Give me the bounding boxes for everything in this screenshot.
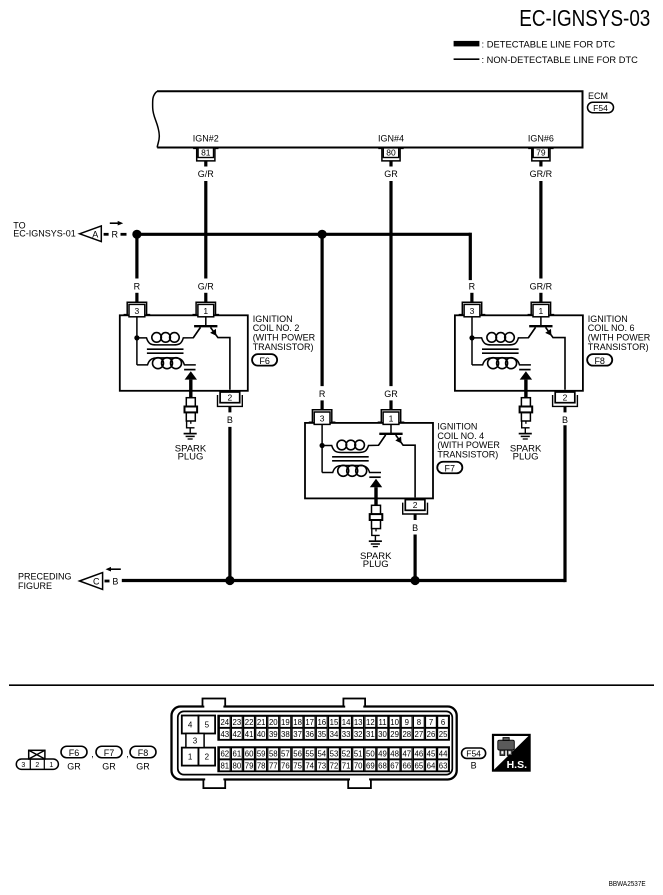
svg-text:69: 69	[366, 762, 375, 771]
svg-text:46: 46	[415, 750, 424, 759]
transformer core (coil F7)	[332, 457, 369, 461]
svg-text:B: B	[562, 415, 568, 425]
svg-text:15: 15	[330, 718, 339, 727]
wire to secondary (coil F7)	[321, 446, 323, 473]
connector F6 oval (bottom)	[61, 746, 94, 759]
svg-text:EC-IGNSYS-01: EC-IGNSYS-01	[13, 229, 76, 239]
ECM connector terminal numbers	[220, 718, 448, 771]
svg-text:PLUG: PLUG	[513, 452, 539, 463]
wire R drop to coil no.4 pin 3	[319, 234, 326, 409]
ground (spark plug 6)	[519, 434, 532, 439]
svg-text:F6: F6	[69, 748, 80, 758]
svg-text:B: B	[112, 577, 118, 587]
wire B dash and label at node C	[105, 577, 119, 587]
coil F6 pin 2	[218, 392, 243, 406]
coil F7 pin 3	[309, 410, 336, 425]
svg-text:21: 21	[257, 718, 266, 727]
svg-text:18: 18	[293, 718, 302, 727]
wire B from coil no.2 pin 2	[227, 406, 233, 580]
svg-text:1: 1	[389, 414, 394, 424]
svg-text:68: 68	[378, 762, 387, 771]
svg-text:PLUG: PLUG	[363, 559, 389, 570]
wire B from coil no.4 pin 2	[412, 514, 418, 581]
svg-text:33: 33	[342, 730, 351, 739]
svg-text:9: 9	[405, 718, 409, 727]
connector housing tabs	[203, 699, 371, 789]
svg-text:B: B	[227, 415, 233, 425]
title EC-IGNSYS-03	[519, 5, 650, 31]
svg-text:A: A	[92, 229, 98, 239]
junction node R / coil2	[132, 230, 141, 239]
wire pin3 to primary (coil F6)	[136, 317, 138, 338]
svg-text:49: 49	[378, 750, 387, 759]
svg-text:53: 53	[330, 750, 339, 759]
svg-text:FIGURE: FIGURE	[18, 581, 52, 591]
small arrow marker (direction)	[110, 221, 123, 226]
spark plug label 2	[175, 443, 207, 462]
svg-text:H.S.: H.S.	[507, 759, 528, 771]
svg-text:GR: GR	[102, 762, 116, 772]
svg-text:55: 55	[305, 750, 314, 759]
svg-text:10: 10	[390, 718, 399, 727]
transformer secondary winding (coil F7)	[322, 465, 381, 476]
ECM pin 79 (IGN#6)	[528, 134, 554, 161]
svg-text:81: 81	[220, 762, 229, 771]
svg-text:42: 42	[233, 730, 242, 739]
coil F6 pin 3	[124, 302, 151, 317]
svg-text:G/R: G/R	[198, 169, 215, 179]
wire R horizontal bus	[137, 234, 470, 278]
svg-text:2: 2	[205, 753, 210, 762]
power transistor (coil F8)	[528, 317, 565, 390]
svg-text:5: 5	[205, 721, 210, 730]
transformer primary winding (coil F7)	[322, 435, 386, 453]
svg-text:14: 14	[342, 718, 351, 727]
svg-text:76: 76	[281, 762, 290, 771]
svg-text:1: 1	[188, 753, 193, 762]
svg-text:61: 61	[233, 750, 242, 759]
transformer primary winding (coil F8)	[472, 327, 536, 345]
legend non-detectable line sample	[454, 55, 639, 65]
svg-text:GR: GR	[384, 389, 398, 399]
svg-text:65: 65	[415, 762, 424, 771]
svg-text:R: R	[319, 389, 326, 399]
svg-text:B: B	[471, 760, 477, 770]
ignition coil no. 4 box (F7)	[305, 423, 433, 499]
connector F54 label	[588, 102, 614, 113]
junction node primary/secondary (coil F7)	[320, 443, 325, 448]
svg-text:36: 36	[305, 730, 314, 739]
wire R drop to coil no.2 pin 3	[134, 234, 141, 302]
connector F8 label oval	[587, 354, 612, 366]
svg-text:TRANSISTOR): TRANSISTOR)	[588, 342, 649, 352]
svg-text:: NON-DETECTABLE LINE FOR DTC: : NON-DETECTABLE LINE FOR DTC	[482, 55, 639, 65]
svg-text:R: R	[134, 281, 141, 291]
svg-text:35: 35	[317, 730, 326, 739]
svg-text:29: 29	[390, 730, 399, 739]
svg-text:79: 79	[245, 762, 254, 771]
ECM box	[153, 91, 608, 147]
svg-text:71: 71	[342, 762, 351, 771]
svg-text:GR/R: GR/R	[530, 281, 553, 291]
coil F8 pin 2	[553, 392, 578, 406]
figure code BBWA2537E	[609, 879, 646, 888]
svg-text:34: 34	[330, 730, 339, 739]
svg-text:63: 63	[439, 762, 448, 771]
wire color GR labels	[67, 762, 150, 772]
svg-text:74: 74	[305, 762, 314, 771]
coil F6 pin 1	[193, 302, 220, 317]
svg-text:58: 58	[269, 750, 278, 759]
ignition coil no.6 text label	[588, 314, 651, 352]
spark plug SP2	[185, 398, 198, 434]
ignition coil no.4 text label	[437, 421, 500, 459]
svg-text:3: 3	[135, 306, 140, 316]
wire R dash segments and label at node A	[104, 229, 127, 239]
svg-text:72: 72	[330, 762, 339, 771]
ground (spark plug 4)	[369, 541, 382, 546]
svg-text:27: 27	[415, 730, 424, 739]
ECM connector terminal grid	[218, 716, 449, 772]
junction node R / coil4	[318, 230, 327, 239]
svg-text:F7: F7	[104, 748, 115, 758]
svg-text:1: 1	[539, 306, 544, 316]
separator rule	[9, 684, 654, 686]
ignition coil no.2 text label	[253, 314, 316, 352]
junction node primary/secondary (coil F8)	[469, 335, 474, 340]
ECM connector pins 1-5 block	[182, 716, 215, 766]
ECM pin 81 (IGN#2)	[193, 134, 219, 161]
junction node B / coil2	[225, 576, 234, 585]
svg-text:45: 45	[427, 750, 436, 759]
svg-text:26: 26	[427, 730, 436, 739]
svg-text:EC-IGNSYS-03: EC-IGNSYS-03	[519, 5, 650, 31]
svg-text:39: 39	[269, 730, 278, 739]
small arrow marker (direction, left)	[106, 567, 121, 572]
spark gap electrode plates (coil F6)	[184, 369, 195, 371]
svg-text:BBWA2537E: BBWA2537E	[609, 879, 646, 888]
wire to secondary (coil F6)	[136, 338, 138, 365]
spark plug label 6	[510, 443, 542, 462]
svg-text:2: 2	[413, 500, 418, 510]
svg-text:43: 43	[220, 730, 229, 739]
svg-text:3: 3	[21, 762, 25, 769]
svg-text:20: 20	[269, 718, 278, 727]
svg-text:4: 4	[188, 721, 193, 730]
svg-text:59: 59	[257, 750, 266, 759]
coil harness connector view (pins 3 2 1)	[16, 750, 58, 769]
svg-text:ECM: ECM	[588, 91, 608, 101]
H.S. view marker	[493, 735, 530, 771]
svg-text:IGN#4: IGN#4	[378, 134, 404, 144]
svg-text:11: 11	[378, 718, 386, 727]
svg-text:GR/R: GR/R	[530, 169, 553, 179]
svg-text:F7: F7	[445, 463, 456, 473]
transformer secondary winding (coil F8)	[472, 358, 531, 369]
svg-text:41: 41	[245, 730, 254, 739]
svg-text:GR: GR	[136, 762, 150, 772]
coil F7 pin 2	[403, 500, 428, 514]
svg-text:54: 54	[317, 750, 326, 759]
spark gap electrode plates (coil F7)	[369, 476, 380, 478]
ECM connector F54 housing	[172, 707, 457, 780]
svg-text:50: 50	[366, 750, 375, 759]
svg-text:22: 22	[245, 718, 254, 727]
svg-text:75: 75	[293, 762, 302, 771]
svg-text:,: ,	[91, 749, 94, 759]
svg-text:48: 48	[390, 750, 399, 759]
spark plug label 4	[360, 551, 392, 570]
svg-text:C: C	[93, 577, 100, 587]
svg-text:30: 30	[378, 730, 387, 739]
spark plug SP6	[520, 398, 533, 434]
svg-text:60: 60	[245, 750, 254, 759]
svg-text:2: 2	[228, 393, 233, 403]
svg-text:28: 28	[402, 730, 411, 739]
svg-text:F8: F8	[594, 356, 605, 366]
svg-text:2: 2	[563, 393, 568, 403]
connector F7 oval (bottom)	[96, 746, 129, 759]
svg-text:73: 73	[317, 762, 326, 771]
svg-text:23: 23	[233, 718, 242, 727]
svg-text:G/R: G/R	[198, 281, 215, 291]
svg-text:3: 3	[320, 414, 325, 424]
wire B horizontal bus	[122, 579, 565, 582]
svg-text:F8: F8	[138, 748, 149, 758]
svg-text:GR: GR	[384, 169, 398, 179]
svg-text:1: 1	[203, 306, 208, 316]
svg-text:32: 32	[354, 730, 363, 739]
ECM pin 80 (IGN#4)	[378, 134, 404, 161]
coil F8 pin 3	[459, 302, 486, 317]
svg-text:67: 67	[390, 762, 399, 771]
svg-text:13: 13	[354, 718, 363, 727]
junction node primary/secondary (coil F6)	[134, 335, 139, 340]
svg-text:,: ,	[126, 749, 129, 759]
svg-text:78: 78	[257, 762, 266, 771]
connector F8 oval (bottom)	[130, 746, 156, 758]
spark gap electrode plates (coil F8)	[519, 369, 530, 371]
svg-text:1: 1	[49, 762, 53, 769]
svg-text:80: 80	[386, 148, 396, 158]
svg-text:81: 81	[201, 148, 211, 158]
svg-text:3: 3	[193, 737, 198, 746]
svg-text:47: 47	[402, 750, 411, 759]
spark gap arrow (coil F8)	[520, 371, 532, 398]
svg-text:7: 7	[429, 718, 433, 727]
svg-text:56: 56	[293, 750, 302, 759]
svg-text:66: 66	[402, 762, 411, 771]
transformer primary winding (coil F6)	[137, 327, 201, 345]
svg-text:52: 52	[342, 750, 351, 759]
transformer core (coil F6)	[147, 349, 184, 353]
ignition coil no. 6 box (F8)	[455, 315, 583, 391]
power transistor (coil F7)	[379, 424, 416, 497]
svg-text:TRANSISTOR): TRANSISTOR)	[437, 450, 498, 460]
svg-text:51: 51	[354, 750, 363, 759]
svg-text:F54: F54	[466, 749, 481, 759]
svg-text:PLUG: PLUG	[178, 452, 204, 463]
svg-text:37: 37	[293, 730, 302, 739]
svg-text:16: 16	[317, 718, 326, 727]
connector F6 label oval	[252, 354, 277, 366]
svg-text:3: 3	[470, 306, 475, 316]
svg-text:PRECEDING: PRECEDING	[18, 571, 72, 581]
svg-text:64: 64	[427, 762, 436, 771]
power transistor (coil F6)	[193, 317, 230, 390]
wire B from coil no.6 pin 2	[562, 406, 568, 580]
svg-text:17: 17	[305, 718, 314, 727]
junction node B / coil4	[411, 576, 420, 585]
svg-text:25: 25	[439, 730, 448, 739]
off-page connector A (TO EC-IGNSYS-01)	[13, 220, 101, 241]
connector F7 label oval	[437, 462, 462, 474]
svg-text:TRANSISTOR): TRANSISTOR)	[253, 342, 314, 352]
svg-text:79: 79	[536, 148, 546, 158]
svg-text:44: 44	[439, 750, 448, 759]
spark gap arrow (coil F7)	[370, 479, 382, 506]
svg-text:R: R	[111, 229, 118, 239]
svg-text:B: B	[412, 523, 418, 533]
svg-text:2: 2	[35, 762, 39, 769]
svg-text:62: 62	[220, 750, 229, 759]
wire GR from ECM pin 80 to ignition coil no.4 pin 1	[384, 161, 398, 410]
svg-text:80: 80	[233, 762, 242, 771]
svg-text:24: 24	[220, 718, 229, 727]
wire GR/R from ECM pin 79 to ignition coil no.6 pin 1	[530, 161, 553, 302]
svg-text:8: 8	[417, 718, 421, 727]
svg-text:57: 57	[281, 750, 290, 759]
svg-text:F6: F6	[259, 356, 270, 366]
wire pin3 to primary (coil F7)	[321, 424, 323, 445]
coil F7 pin 1	[378, 410, 405, 425]
wire G/R from ECM pin 81 to ignition coil no.2 pin 1	[198, 161, 215, 302]
ground (spark plug 2)	[184, 434, 197, 439]
spark gap arrow (coil F6)	[185, 371, 197, 398]
svg-text:6: 6	[441, 718, 445, 727]
svg-text:F54: F54	[593, 103, 608, 113]
svg-text:70: 70	[354, 762, 363, 771]
svg-text:31: 31	[366, 730, 375, 739]
svg-text:77: 77	[269, 762, 278, 771]
legend detectable line sample	[454, 38, 616, 49]
svg-text:: DETECTABLE LINE FOR DTC: : DETECTABLE LINE FOR DTC	[482, 38, 616, 49]
svg-text:IGN#2: IGN#2	[193, 134, 219, 144]
svg-text:GR: GR	[67, 762, 81, 772]
spark plug SP4	[370, 505, 383, 541]
svg-text:12: 12	[366, 718, 375, 727]
ignition coil no. 2 box (F6)	[120, 315, 248, 391]
transformer core (coil F8)	[482, 349, 519, 353]
wire pin3 to primary (coil F8)	[471, 317, 473, 338]
svg-text:IGN#6: IGN#6	[528, 134, 554, 144]
svg-text:38: 38	[281, 730, 290, 739]
coil F8 pin 1	[528, 302, 555, 317]
svg-text:19: 19	[281, 718, 290, 727]
wire R drop to coil no.6 pin 3	[469, 281, 476, 302]
svg-text:R: R	[469, 281, 476, 291]
connector F54 oval (bottom)	[462, 748, 486, 770]
svg-text:40: 40	[257, 730, 266, 739]
wire to secondary (coil F8)	[471, 338, 473, 365]
transformer secondary winding (coil F6)	[137, 358, 196, 369]
off-page connector C (PRECEDING FIGURE)	[18, 571, 103, 591]
